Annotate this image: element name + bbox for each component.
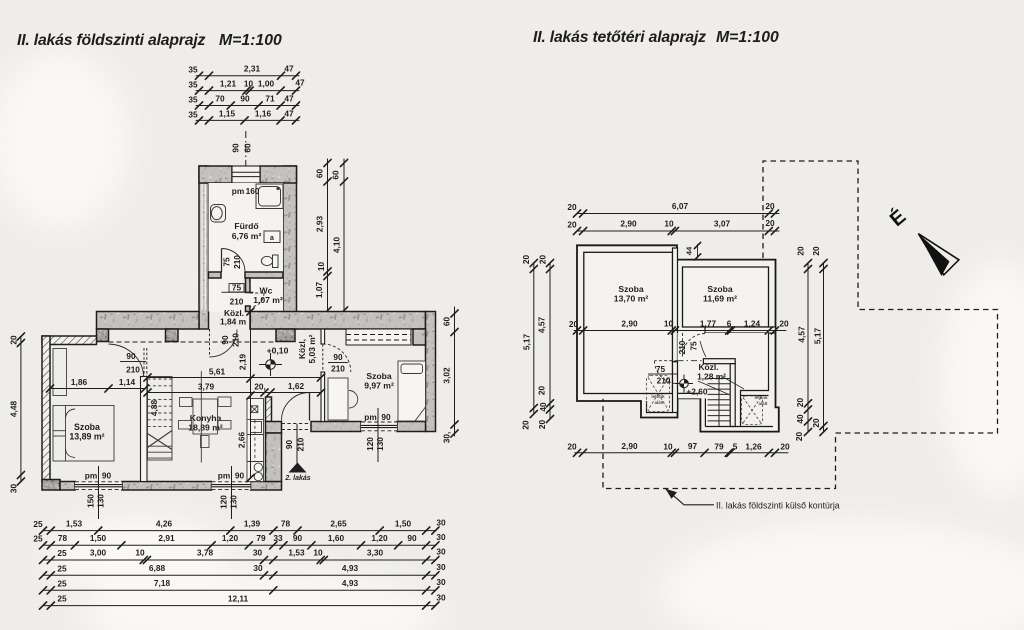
corridor door leaf and arc — [210, 329, 238, 357]
partition wall Fürdő right piece — [245, 272, 283, 278]
attic outer wall outline — [577, 245, 779, 431]
svg-text:210: 210 — [677, 340, 687, 354]
dim left 20/4,48/30 — [17, 333, 24, 485]
svg-text:4,26: 4,26 — [156, 519, 173, 529]
svg-text:210: 210 — [657, 376, 671, 386]
dashed interior line under band — [109, 341, 277, 343]
szoba2 window parapet — [346, 329, 411, 345]
entrance door leaf and arc — [282, 393, 310, 421]
door Wc dashed arc — [250, 293, 264, 307]
staircase — [148, 377, 173, 461]
attic door left room dashed arc — [655, 361, 678, 384]
svg-text:10: 10 — [664, 219, 674, 229]
door Fürdő leaf and arc — [222, 249, 246, 273]
bathroom left outer wall — [199, 166, 209, 329]
svg-text:47: 47 — [284, 94, 294, 104]
dim bath vertical 60/2,93/10/1,07 — [324, 159, 331, 314]
svg-text:2,90: 2,90 — [621, 319, 638, 329]
kitchen table and chairs — [179, 397, 232, 448]
svg-text:120: 120 — [219, 495, 229, 509]
left niche dashed box letörik — [647, 376, 670, 412]
szoba1 bed — [53, 406, 114, 462]
svg-text:M=1:100: M=1:100 — [716, 29, 779, 46]
svg-text:10: 10 — [316, 262, 326, 272]
svg-text:75: 75 — [232, 283, 242, 293]
niche inner west and bottom lines — [647, 401, 673, 413]
svg-text:130: 130 — [229, 495, 239, 509]
entrance door threshold dashes — [282, 424, 312, 430]
svg-text:+2,60: +2,60 — [686, 387, 708, 397]
attic step 44 dim — [685, 242, 702, 261]
svg-text:79: 79 — [256, 533, 266, 543]
bath window centerline dash-dot — [245, 131, 247, 196]
svg-text:30,: 30, — [442, 432, 452, 444]
attic dim mid row — [573, 327, 786, 334]
svg-text:20: 20 — [795, 398, 805, 408]
bathroom top wall left segment — [199, 166, 232, 183]
svg-text:6,07: 6,07 — [672, 201, 689, 211]
svg-text:1,07: 1,07 — [314, 282, 324, 299]
svg-text:2,93: 2,93 — [315, 216, 325, 233]
svg-text:4,57: 4,57 — [797, 326, 807, 343]
dim 3,79/20/1,62 — [144, 389, 325, 396]
dim chain bath row4 35/1,15/1,16/47 — [195, 117, 299, 124]
svg-text:II. lakás tetőtéri alaprajz: II. lakás tetőtéri alaprajz — [533, 29, 706, 46]
svg-text:90: 90 — [102, 471, 112, 481]
level marker ground floor — [259, 353, 282, 376]
entrance arrow 2.lakas — [289, 463, 307, 473]
svg-text:35: 35 — [188, 95, 198, 105]
svg-text:1,77: 1,77 — [700, 319, 717, 329]
svg-text:20: 20 — [521, 255, 531, 265]
svg-text:6,76 m²: 6,76 m² — [232, 231, 262, 241]
svg-text:25: 25 — [57, 594, 67, 604]
svg-text:20: 20 — [811, 246, 821, 256]
svg-text:4,10: 4,10 — [332, 237, 342, 254]
svg-text:90: 90 — [220, 335, 230, 345]
kozl interior area — [678, 333, 769, 426]
partition wall Közl/Wc vertical bottom — [246, 306, 251, 312]
svg-text:150: 150 — [86, 494, 96, 508]
attic dim top row2 20/2,90/10/3,07/20 — [573, 227, 779, 234]
main top wall band right segment — [250, 312, 426, 330]
svg-text:30: 30 — [253, 548, 263, 558]
svg-text:30: 30 — [436, 518, 446, 528]
svg-text:130: 130 — [375, 437, 385, 451]
svg-text:+0,10: +0,10 — [267, 346, 289, 356]
attic staircase treads — [698, 376, 730, 426]
svg-text:3,02: 3,02 — [442, 367, 452, 384]
svg-text:1,84 m: 1,84 m — [220, 317, 246, 327]
dim bottom row1 — [39, 527, 439, 534]
svg-text:90: 90 — [333, 352, 343, 362]
window pm90 szoba2 (120/130) — [361, 408, 397, 462]
svg-text:3,00: 3,00 — [90, 548, 107, 558]
svg-text:25: 25 — [33, 534, 43, 544]
door Wc labels 75/210 — [222, 283, 254, 307]
attic inner wall line right room — [683, 267, 769, 327]
svg-text:Szoba: Szoba — [366, 371, 392, 381]
shower tray — [256, 184, 283, 209]
svg-text:1,28 m²: 1,28 m² — [697, 372, 726, 382]
svg-text:II. lakás földszinti alaprajz: II. lakás földszinti alaprajz — [17, 32, 206, 49]
window pm90 left (150/130) — [75, 466, 122, 519]
svg-text:1,21: 1,21 — [220, 79, 237, 89]
svg-text:25: 25 — [33, 519, 43, 529]
dim right 60/3,02/30 — [451, 307, 458, 437]
szoba1 wardrobe — [53, 349, 67, 396]
svg-text:1,14: 1,14 — [119, 377, 136, 387]
attic dim right line1 20/4,57/20/40/20 — [804, 259, 811, 435]
svg-text:20: 20 — [569, 319, 579, 329]
svg-text:9,97 m²: 9,97 m² — [364, 381, 394, 391]
svg-text:25: 25 — [57, 548, 67, 558]
svg-text:2,66: 2,66 — [237, 432, 247, 449]
svg-text:13,70 m²: 13,70 m² — [614, 294, 649, 304]
szoba1 door leaf dashes — [144, 348, 147, 377]
svg-text:20: 20 — [537, 386, 547, 396]
svg-text:20: 20 — [796, 246, 806, 256]
szoba1 door labels 90/210 — [120, 351, 146, 375]
bottom-left dark corner block — [42, 480, 60, 491]
attic kozl leader line — [723, 377, 744, 389]
svg-text:pm: pm — [85, 471, 97, 481]
svg-text:210: 210 — [232, 255, 242, 269]
svg-text:13,89 m²: 13,89 m² — [69, 432, 104, 442]
svg-text:40: 40 — [795, 414, 805, 424]
svg-text:1,24: 1,24 — [744, 319, 761, 329]
toilet — [261, 255, 278, 268]
svg-text:1,20: 1,20 — [371, 533, 388, 543]
svg-text:20: 20 — [765, 201, 775, 211]
svg-text:6: 6 — [727, 319, 732, 329]
svg-text:pm: pm — [218, 471, 230, 481]
bathroom interior floor — [209, 183, 284, 312]
right niche top wall inner line — [741, 394, 769, 396]
kitchen hatched wall strip — [266, 397, 272, 422]
dim bottom row4 — [39, 572, 439, 579]
dim chain bath row1 35/2,31/47 — [195, 72, 299, 79]
svg-text:letörik: letörik — [754, 395, 768, 400]
svg-text:4,93: 4,93 — [342, 563, 359, 573]
bathroom top window — [232, 166, 260, 183]
svg-text:11,69 m²: 11,69 m² — [703, 294, 737, 304]
svg-text:pm: pm — [232, 186, 244, 196]
kozl south wall inner line — [678, 392, 701, 394]
svg-text:90: 90 — [231, 143, 241, 153]
partition wall Közl/Wc vertical top — [246, 278, 251, 293]
attic door2 dash-dot line — [678, 360, 704, 362]
attic inner wall line left room — [584, 252, 673, 393]
szoba2 door labels 90/210 — [328, 352, 348, 374]
svg-text:1,15: 1,15 — [219, 109, 236, 119]
svg-text:12,11: 12,11 — [228, 594, 249, 604]
svg-text:160: 160 — [246, 186, 260, 196]
long vertical reference line in konyha — [200, 371, 202, 463]
szoba2 desk — [328, 378, 348, 420]
attic dim left line2 20/4,57/20/40/20 — [546, 259, 553, 422]
pillar left of szoba door — [97, 329, 109, 342]
bottom wall segment c — [251, 482, 282, 491]
niche east wall between kozl — [673, 362, 678, 413]
svg-text:Közl.: Közl. — [698, 362, 718, 372]
svg-text:20: 20 — [794, 432, 804, 442]
szoba1 door arc — [109, 344, 144, 377]
svg-text:75: 75 — [656, 364, 666, 374]
main top wall band left segment — [97, 312, 200, 330]
svg-text:5,17: 5,17 — [813, 328, 823, 345]
svg-text:30: 30 — [9, 484, 19, 494]
svg-text:3,30: 3,30 — [367, 548, 384, 558]
szoba2 door leaf and arc — [323, 344, 351, 372]
stair north wall A — [703, 359, 735, 364]
svg-text:71: 71 — [265, 94, 275, 104]
svg-text:10: 10 — [664, 319, 674, 329]
stair east wall — [730, 364, 735, 427]
svg-text:2,19: 2,19 — [238, 354, 248, 371]
svg-text:20: 20 — [780, 442, 790, 452]
svg-text:30: 30 — [253, 563, 263, 573]
svg-text:60: 60 — [315, 169, 325, 179]
svg-text:97: 97 — [688, 441, 698, 451]
svg-text:1,07 m²: 1,07 m² — [253, 295, 283, 305]
svg-text:20: 20 — [765, 218, 775, 228]
svg-text:6,88: 6,88 — [149, 563, 166, 573]
svg-text:4,88: 4,88 — [149, 400, 159, 417]
svg-text:210: 210 — [126, 365, 140, 375]
middle bottom wall segment right — [397, 422, 426, 432]
washbasin — [211, 205, 226, 223]
svg-text:1,39: 1,39 — [244, 519, 261, 529]
svg-text:20: 20 — [567, 220, 577, 230]
svg-text:90: 90 — [293, 533, 303, 543]
bathroom left wall inner stripes — [202, 184, 205, 310]
svg-text:60: 60 — [442, 317, 452, 327]
middle bottom wall segment left — [311, 422, 361, 432]
svg-text:20: 20 — [521, 420, 531, 430]
svg-text:Szoba: Szoba — [618, 284, 644, 294]
dim bottom row3 — [39, 556, 439, 563]
svg-text:1,50: 1,50 — [395, 519, 412, 529]
window pm90 mid (120/130) — [212, 466, 251, 519]
svg-text:II. lakás földszinti külső kon: II. lakás földszinti külső kontúrja — [716, 501, 840, 511]
svg-text:1,00: 1,00 — [258, 79, 275, 89]
attic level marker — [675, 375, 693, 393]
svg-text:78: 78 — [281, 519, 291, 529]
svg-text:10: 10 — [663, 442, 673, 452]
svg-text:5: 5 — [733, 442, 738, 452]
svg-text:90: 90 — [126, 351, 136, 361]
svg-text:pm: pm — [364, 412, 376, 422]
svg-text:Fürdő: Fürdő — [234, 221, 258, 231]
svg-text:20: 20 — [538, 255, 548, 265]
svg-text:44: 44 — [685, 246, 694, 255]
pillar mid band — [166, 329, 179, 342]
svg-text:10: 10 — [244, 79, 254, 89]
svg-text:90: 90 — [240, 94, 250, 104]
svg-text:5,03 m²: 5,03 m² — [307, 334, 317, 363]
ground floor contour dashed — [603, 161, 998, 489]
svg-text:40: 40 — [538, 402, 548, 412]
bathroom right outer wall — [283, 166, 297, 329]
partition wall Fürdő left piece — [209, 272, 222, 278]
svg-text:25: 25 — [57, 564, 67, 574]
svg-text:90: 90 — [235, 471, 245, 481]
svg-text:4,93: 4,93 — [342, 578, 359, 588]
attic bottom wall right room east part — [705, 327, 776, 333]
svg-text:75: 75 — [689, 341, 699, 351]
svg-text:a: a — [270, 235, 274, 242]
kitchen right vertical wall — [266, 433, 282, 482]
svg-text:210: 210 — [296, 437, 306, 451]
svg-text:78: 78 — [58, 533, 68, 543]
dim bath vertical 60/4,10 — [340, 159, 347, 314]
bottom wall segment b — [122, 482, 212, 491]
svg-text:Szoba: Szoba — [74, 422, 100, 432]
attic dim left line1 20/5,17/20 — [530, 259, 537, 417]
svg-text:30: 30 — [436, 562, 446, 572]
svg-text:210: 210 — [231, 333, 241, 347]
svg-text:60: 60 — [331, 170, 341, 180]
svg-text:47: 47 — [295, 78, 305, 88]
svg-text:35: 35 — [188, 80, 198, 90]
svg-text:5,17: 5,17 — [522, 334, 532, 351]
svg-text:4,57: 4,57 — [537, 317, 547, 334]
svg-text:alátt: alátt — [654, 400, 664, 405]
svg-text:3,07: 3,07 — [714, 219, 731, 229]
szoba2 chair — [349, 391, 358, 409]
svg-text:Wc: Wc — [260, 286, 273, 296]
szoba2 left thin wall — [321, 372, 325, 422]
szoba1 wall to stair hall — [141, 377, 148, 482]
dim bottom row2 — [39, 542, 439, 549]
main right wall — [426, 312, 436, 432]
svg-text:1,50: 1,50 — [90, 533, 107, 543]
svg-text:35: 35 — [188, 65, 198, 75]
svg-text:75: 75 — [222, 257, 232, 267]
svg-text:90: 90 — [284, 440, 294, 450]
svg-text:210: 210 — [230, 297, 244, 307]
svg-text:Konyha: Konyha — [190, 413, 222, 423]
svg-text:4,48: 4,48 — [9, 401, 19, 418]
svg-text:47: 47 — [284, 109, 294, 119]
svg-text:90: 90 — [407, 533, 417, 543]
svg-text:130: 130 — [96, 494, 106, 508]
svg-text:47: 47 — [284, 64, 294, 74]
attic dim top row1 20/6,07/20 — [573, 210, 779, 217]
svg-text:210: 210 — [331, 364, 345, 374]
attic bottom inner line — [705, 426, 773, 428]
bottom wall segment a — [60, 482, 75, 491]
attic dim bottom row — [573, 449, 788, 456]
svg-text:10: 10 — [135, 548, 145, 558]
window pier right — [413, 329, 426, 345]
svg-text:1,86: 1,86 — [71, 377, 88, 387]
attic door2 fraction line — [648, 373, 677, 375]
stair west inner line — [704, 398, 706, 426]
svg-text:20: 20 — [811, 418, 821, 428]
svg-text:25: 25 — [57, 579, 67, 589]
kitchen counter — [247, 399, 264, 482]
svg-text:2. lakás: 2. lakás — [284, 475, 310, 482]
svg-text:35: 35 — [188, 110, 198, 120]
szoba top hatched wall — [42, 336, 97, 345]
svg-text:2,90: 2,90 — [621, 441, 638, 451]
svg-text:30: 30 — [436, 547, 446, 557]
svg-text:3,78: 3,78 — [197, 548, 214, 558]
svg-text:1,20: 1,20 — [222, 533, 239, 543]
washing machine box a — [264, 231, 280, 243]
svg-text:2,65: 2,65 — [330, 519, 347, 529]
svg-text:60: 60 — [243, 143, 253, 153]
svg-text:3,79: 3,79 — [198, 382, 215, 392]
svg-text:5,61: 5,61 — [209, 367, 226, 377]
svg-text:1,53: 1,53 — [66, 519, 83, 529]
attic door right room dashed arc — [683, 333, 706, 357]
dim vertical 2,19/2,66 — [247, 308, 254, 482]
dim 1,86/1,14 — [46, 385, 148, 392]
attic dim right line2 20/5,17/20 — [820, 259, 827, 435]
entrance door dim line — [296, 424, 298, 467]
svg-text:M=1:100: M=1:100 — [219, 32, 282, 49]
svg-text:1,53: 1,53 — [288, 548, 305, 558]
svg-text:33: 33 — [273, 533, 283, 543]
bathroom top wall right segment — [260, 166, 297, 183]
dim chain bath row2 35/1,21/10/1,00/47 — [195, 87, 299, 94]
kitchen corner block — [266, 422, 282, 434]
svg-text:10: 10 — [313, 548, 323, 558]
attic divider wall — [673, 248, 678, 362]
pillar chimney right of corridor — [276, 329, 295, 342]
svg-text:30: 30 — [436, 532, 446, 542]
svg-text:letörik: letörik — [651, 394, 665, 399]
svg-text:2,31: 2,31 — [244, 64, 261, 74]
attic door1 leader line — [700, 341, 706, 357]
szoba2 wall upper piece — [321, 329, 325, 344]
svg-text:90: 90 — [381, 412, 391, 422]
right wall inner lower line — [741, 333, 769, 426]
svg-text:2,91: 2,91 — [158, 533, 175, 543]
dim bottom row6 — [39, 602, 439, 609]
szoba2 bed — [398, 361, 426, 421]
svg-text:20: 20 — [779, 319, 789, 329]
svg-text:1,60: 1,60 — [328, 533, 345, 543]
svg-text:79: 79 — [714, 442, 724, 452]
svg-text:Szoba: Szoba — [707, 284, 733, 294]
svg-text:2,90: 2,90 — [620, 219, 637, 229]
svg-text:1,26: 1,26 — [745, 442, 762, 452]
dim chain bath row3 35/70/90/71/47 — [195, 102, 299, 109]
svg-text:7,18: 7,18 — [154, 578, 171, 588]
svg-text:70: 70 — [215, 94, 225, 104]
svg-text:alátt: alátt — [758, 401, 768, 406]
dim 5,61 — [144, 374, 325, 381]
svg-text:1,16: 1,16 — [255, 109, 272, 119]
svg-text:30: 30 — [436, 593, 446, 603]
svg-text:30: 30 — [436, 577, 446, 587]
svg-text:20: 20 — [9, 335, 19, 345]
dim bottom row5 — [39, 587, 439, 594]
szoba left hatched wall — [42, 336, 50, 482]
svg-text:20: 20 — [567, 442, 577, 452]
svg-text:20: 20 — [567, 202, 577, 212]
svg-text:Közl,: Közl, — [297, 339, 307, 359]
svg-text:1,62: 1,62 — [288, 381, 305, 391]
contour leader arrow — [666, 489, 715, 505]
right niche dashed box letörik — [742, 396, 763, 425]
north arrow shape — [918, 234, 959, 276]
svg-text:120: 120 — [365, 437, 375, 451]
